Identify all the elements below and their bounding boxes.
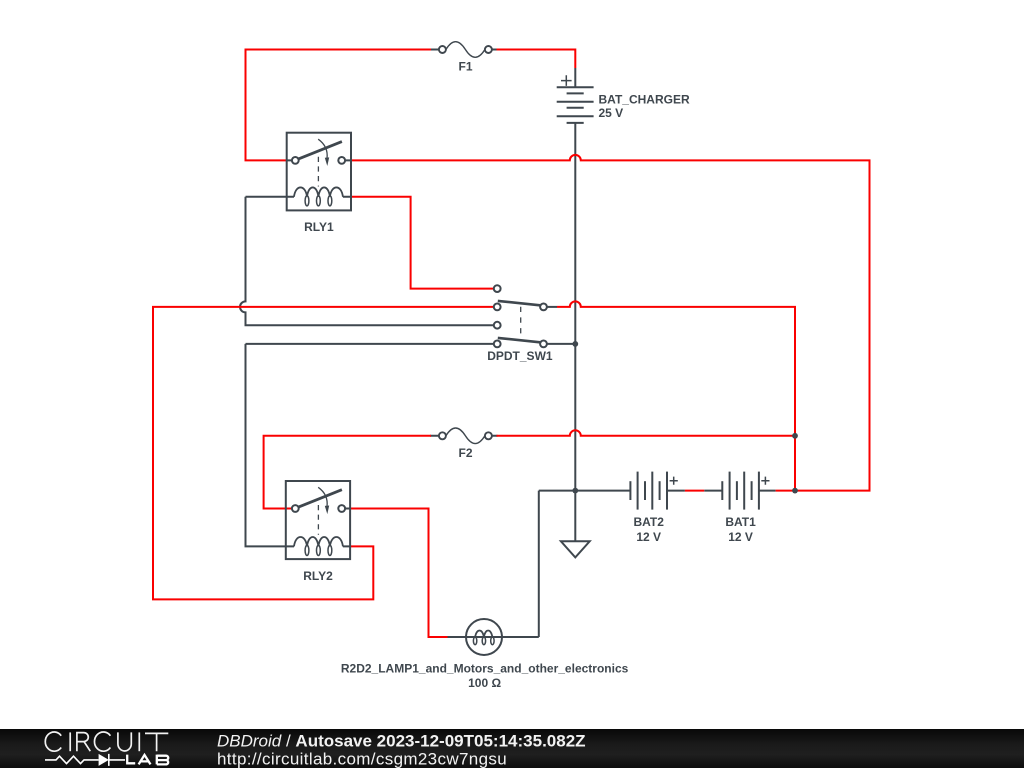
svg-text:DBDroid / Autosave 2023-12-09T: DBDroid / Autosave 2023-12-09T05:14:35.0…	[217, 731, 586, 750]
svg-text:F1: F1	[458, 60, 472, 74]
svg-text:R2D2_LAMP1_and_Motors_and_othe: R2D2_LAMP1_and_Motors_and_other_electron…	[341, 661, 629, 675]
svg-text:25 V: 25 V	[599, 106, 624, 120]
svg-text:RLY1: RLY1	[304, 220, 334, 234]
svg-text:BAT_CHARGER: BAT_CHARGER	[599, 92, 690, 106]
svg-text:100 Ω: 100 Ω	[468, 676, 501, 690]
svg-text:F2: F2	[458, 446, 472, 460]
svg-text:RLY2: RLY2	[303, 569, 333, 583]
svg-text:12 V: 12 V	[728, 530, 753, 544]
svg-text:http://circuitlab.com/csgm23cw: http://circuitlab.com/csgm23cw7ngsu	[217, 749, 507, 768]
svg-text:DPDT_SW1: DPDT_SW1	[487, 349, 553, 363]
svg-text:BAT1: BAT1	[725, 515, 756, 529]
svg-text:12 V: 12 V	[636, 530, 661, 544]
svg-text:BAT2: BAT2	[633, 515, 664, 529]
